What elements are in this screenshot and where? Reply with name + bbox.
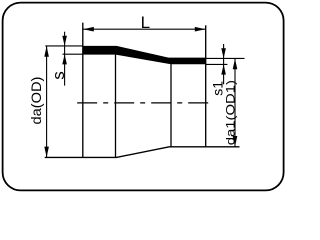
border frame <box>3 3 284 191</box>
svg-text:da(OD): da(OD) <box>29 77 45 125</box>
junction line right <box>170 64 172 147</box>
centerline <box>77 102 211 104</box>
dimension s line <box>64 32 66 86</box>
bottom outline <box>45 147 240 158</box>
dimension s1 line <box>223 44 225 84</box>
junction line left <box>115 54 117 157</box>
svg-text:s: s <box>49 71 68 80</box>
pipe right end face <box>205 25 207 147</box>
extension line inner left <box>63 53 83 55</box>
dimension L line <box>83 28 206 30</box>
pipe left end face <box>82 23 84 158</box>
extension line inner right <box>206 63 228 65</box>
extension line outer left <box>45 45 83 47</box>
dimension da line <box>46 46 48 157</box>
extension line outer right <box>206 57 245 59</box>
svg-text:da1(OD1): da1(OD1) <box>224 80 237 145</box>
dimension da1 line <box>234 58 236 146</box>
svg-text:L: L <box>141 13 150 32</box>
reducer top wall (section band) <box>83 46 206 64</box>
